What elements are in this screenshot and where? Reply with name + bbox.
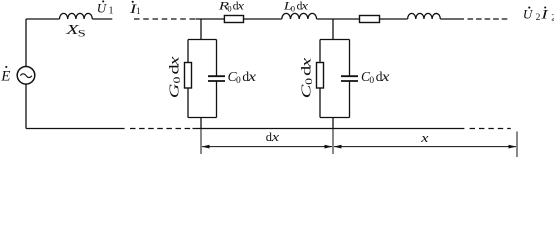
svg-text:C: C (298, 84, 314, 98)
shunt 2 left branch wire upper (319, 40, 321, 63)
arrowhead right of x dimension (509, 145, 517, 149)
source E sine symbol (20, 74, 32, 78)
wire top solid through node A to R0 box (196, 18, 225, 20)
svg-text:x: x (298, 58, 314, 68)
svg-text:d: d (166, 64, 182, 74)
arrowhead right of dx dimension (325, 145, 333, 149)
shunt 2 drop to bottom rail (332, 118, 334, 129)
shunt 1 top bar (188, 39, 217, 41)
wire bottom dashed segment right (470, 128, 511, 130)
svg-text:G: G (166, 83, 182, 98)
wire bottom dashed segment (130, 128, 193, 130)
label x (dimension) (420, 132, 429, 146)
dimension tick at right end (516, 132, 518, 158)
svg-text:0: 0 (369, 76, 374, 86)
wire between R0 and L0 (244, 18, 282, 20)
wire top dashed segment 1 (134, 18, 196, 20)
label R0dx (218, 0, 230, 13)
inductor (unlabeled, second section) (408, 13, 441, 19)
wire left rail lower (source bottom to bottom rail) (25, 84, 27, 129)
node B vertical drop (332, 19, 334, 40)
wire bottom rail solid left (26, 128, 125, 130)
wire between second box and second coil (380, 18, 408, 20)
shunt 2 top bar (320, 39, 350, 41)
wire top-left horizontal from source corner to coil (26, 18, 60, 20)
svg-text:x: x (420, 132, 429, 146)
shunt 1 left branch wire lower (187, 88, 189, 118)
resistor C0dx (left element of shunt 2) (317, 63, 324, 89)
svg-text:I: I (540, 7, 549, 21)
shunt 2 left branch wire lower (319, 88, 321, 118)
capacitor C0dx plates (208, 76, 225, 81)
wire bottom rail solid middle (193, 128, 465, 130)
wire left rail upper (corner to source top) (25, 19, 27, 67)
shunt 2 bottom bar (320, 117, 350, 119)
wire top dashed segment 2 (to port 2) (468, 18, 508, 20)
dimension line dx (202, 146, 332, 148)
arrowhead left of x dimension (334, 145, 342, 149)
svg-text:x: x (271, 131, 280, 145)
shunt 1 left branch wire upper (187, 40, 189, 63)
svg-text:x: x (247, 70, 256, 85)
shunt 2 right branch wire upper (349, 40, 351, 77)
svg-text:d: d (298, 65, 314, 75)
resistor R0dx (224, 16, 243, 23)
svg-text:U: U (523, 7, 534, 22)
svg-text:x: x (300, 0, 308, 12)
svg-text:0: 0 (236, 76, 241, 86)
svg-text:U: U (97, 0, 108, 15)
svg-text:x: x (380, 70, 389, 85)
label G0dx (rotated, shunt 1 resistor) (166, 56, 183, 98)
shunt 1 bottom bar (188, 117, 217, 119)
svg-text:x: x (166, 56, 182, 66)
wire from L0 through node B to second series box (317, 18, 360, 20)
shunt 1 right branch wire lower (216, 81, 218, 118)
source E circle (17, 67, 35, 85)
shunt 2 right branch wire lower (349, 81, 351, 118)
capacitor C0dx plates (shunt 2) (341, 76, 358, 81)
svg-text:1: 1 (109, 6, 114, 17)
label I1 (port 1 current) (129, 2, 138, 16)
arrowhead left of dx dimension (202, 145, 210, 149)
svg-text:0: 0 (227, 3, 231, 13)
svg-text:1: 1 (136, 6, 141, 16)
dimension line x (334, 146, 516, 148)
svg-text:E: E (0, 69, 10, 85)
resistor G0dx (185, 63, 192, 89)
svg-text:0: 0 (291, 3, 295, 13)
resistor (unlabeled, second section) (360, 16, 380, 23)
wire after second coil (440, 18, 464, 20)
inductor XS coil (60, 13, 93, 19)
wire after XS to port 1 (92, 18, 112, 20)
inductor L0dx coil (282, 13, 317, 19)
dimension tick at node B (332, 129, 334, 154)
svg-text:0: 0 (171, 77, 182, 84)
shunt 1 right branch wire upper (216, 40, 218, 77)
shunt 1 drop to bottom rail (200, 118, 202, 129)
svg-text:0: 0 (303, 78, 314, 85)
node A vertical drop (200, 19, 202, 40)
svg-text:x: x (236, 0, 244, 12)
svg-text:S: S (78, 28, 86, 39)
label XS (65, 21, 80, 37)
dimension tick at node A (200, 129, 202, 154)
svg-text:2: 2 (536, 13, 541, 23)
label L0dx (283, 0, 292, 12)
label C0dx (rotated, shunt 2 left element) (298, 58, 315, 99)
